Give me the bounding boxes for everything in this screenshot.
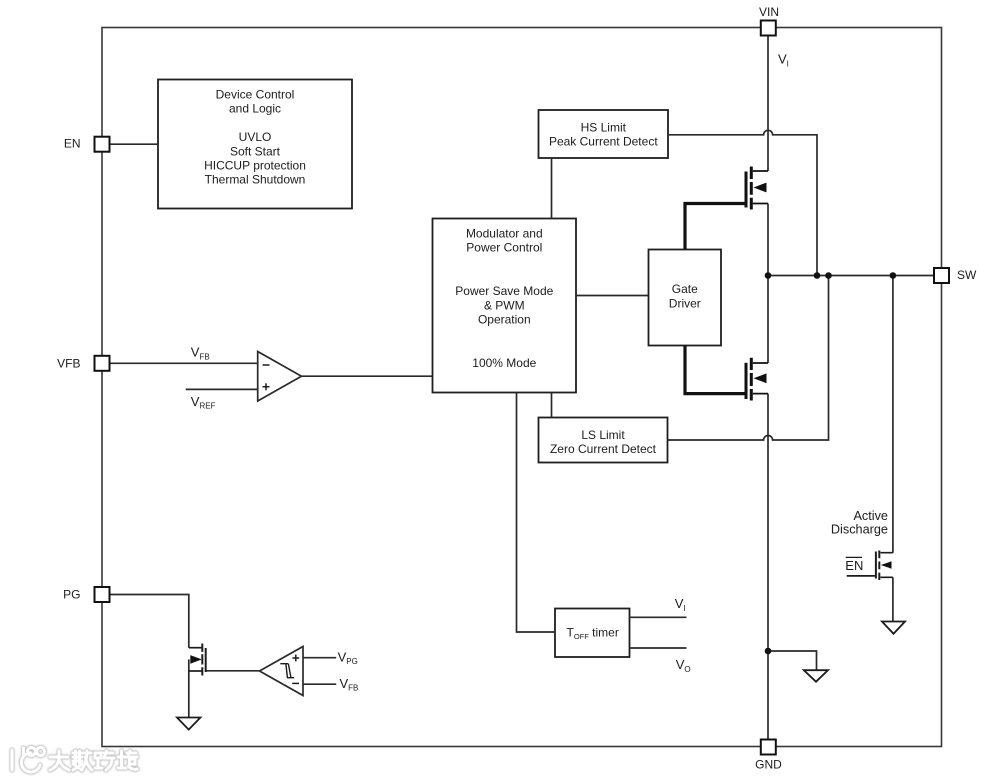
svg-text:HICCUP protection: HICCUP protection [204, 159, 306, 173]
svg-text:Device Control: Device Control [216, 88, 295, 102]
svg-text:Thermal Shutdown: Thermal Shutdown [205, 173, 306, 187]
svg-text:Driver: Driver [669, 297, 701, 311]
svg-text:GND: GND [755, 758, 782, 772]
svg-text:Operation: Operation [478, 313, 531, 327]
svg-text:& PWM: & PWM [484, 298, 525, 312]
svg-text:Peak Current Detect: Peak Current Detect [549, 135, 658, 149]
svg-text:LS Limit: LS Limit [581, 428, 625, 442]
svg-text:Modulator and: Modulator and [466, 226, 543, 240]
svg-text:EN: EN [64, 137, 81, 151]
svg-text:VFB: VFB [57, 357, 80, 371]
svg-text:HS Limit: HS Limit [581, 120, 627, 134]
svg-text:Discharge: Discharge [831, 523, 888, 537]
svg-text:Power Save Mode: Power Save Mode [455, 284, 553, 298]
svg-text:Gate: Gate [672, 282, 698, 296]
svg-text:Power Control: Power Control [466, 241, 542, 255]
svg-text:Zero Current Detect: Zero Current Detect [550, 442, 657, 456]
svg-text:EN: EN [845, 558, 863, 573]
svg-text:SW: SW [957, 268, 977, 282]
svg-text:PG: PG [63, 588, 80, 602]
svg-text:and Logic: and Logic [229, 102, 281, 116]
svg-text:VIN: VIN [759, 5, 779, 19]
svg-text:Soft Start: Soft Start [230, 144, 281, 158]
svg-text:100% Mode: 100% Mode [472, 356, 536, 370]
svg-text:UVLO: UVLO [239, 130, 272, 144]
svg-text:Active: Active [853, 509, 888, 523]
